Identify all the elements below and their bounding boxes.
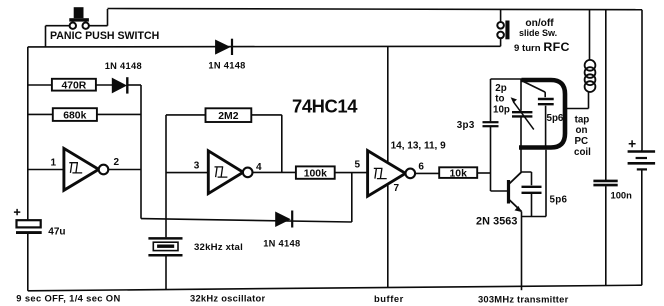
wire bottom ground rail	[28, 285, 642, 291]
wire gate1 input	[28, 169, 64, 171]
wire node B vertical	[140, 85, 142, 219]
svg-text:3: 3	[194, 161, 200, 172]
svg-text:on: on	[576, 125, 588, 136]
svg-text:1N 4148: 1N 4148	[105, 61, 142, 71]
svg-text:100n: 100n	[611, 190, 633, 201]
svg-text:1N 4148: 1N 4148	[208, 60, 245, 70]
svg-text:PANIC PUSH SWITCH: PANIC PUSH SWITCH	[50, 30, 159, 42]
svg-text:7: 7	[394, 183, 400, 194]
wire RFC bottom lead to tap	[565, 92, 589, 109]
wire slide switch bottom lead	[500, 38, 502, 46]
wire push switch right lead	[89, 9, 108, 26]
svg-text:32kHz oscillator: 32kHz oscillator	[190, 292, 265, 303]
svg-text:1N 4148: 1N 4148	[263, 238, 300, 248]
wire second rail	[28, 45, 501, 48]
svg-text:680k: 680k	[63, 111, 86, 122]
svg-text:6: 6	[418, 162, 424, 173]
capacitor C1 47u electrolytic	[14, 209, 42, 233]
svg-text:47u: 47u	[48, 227, 65, 238]
wire base node vertical lower	[490, 127, 492, 191]
wire base node vertical upper	[490, 79, 492, 121]
svg-text:9 sec OFF, 1/4 sec ON: 9 sec OFF, 1/4 sec ON	[16, 293, 120, 304]
label tap on PC coil	[574, 115, 591, 159]
svg-text:2: 2	[114, 157, 120, 168]
svg-text:74HC14: 74HC14	[292, 95, 358, 116]
wire gate1 output to node B	[108, 169, 141, 171]
wire unused-inputs line pins 14-13-11-9	[387, 46, 389, 287]
resistor R3 2M2	[206, 108, 252, 122]
resistor R2 680k	[53, 108, 97, 121]
push-button switch S1 contacts	[70, 23, 89, 29]
wire right edge down to battery	[641, 10, 643, 150]
svg-text:10k: 10k	[450, 168, 468, 179]
svg-text:1: 1	[51, 158, 57, 169]
svg-text:3p3: 3p3	[457, 120, 475, 131]
svg-text:5: 5	[355, 159, 361, 170]
wire top supply rail	[108, 9, 643, 10]
wire left rail	[27, 47, 29, 220]
variable capacitor VC1 arrow	[511, 97, 534, 129]
wire collector to 5p6 top	[521, 172, 532, 185]
svg-text:tap: tap	[575, 115, 590, 126]
wire 100n top lead	[605, 10, 607, 180]
resistor R5 10k	[439, 167, 477, 178]
wire 10k to base node	[477, 172, 490, 174]
wire 680k row left	[28, 113, 53, 115]
svg-text:303MHz transmitter: 303MHz transmitter	[478, 294, 569, 305]
wire 2M2 left leg	[166, 114, 206, 116]
crystal X1 32kHz	[148, 238, 182, 255]
wire 47u to bottom rail	[27, 234, 29, 291]
svg-text:14, 13, 11, 9: 14, 13, 11, 9	[391, 141, 446, 152]
svg-text:2p: 2p	[495, 83, 506, 94]
svg-text:2M2: 2M2	[218, 111, 238, 122]
wire diagonal tank top to inner 5p6	[523, 82, 545, 93]
wire diode D2 to node B	[127, 84, 141, 86]
capacitor C2 3p3	[483, 122, 499, 126]
svg-text:9 turn RFC: 9 turn RFC	[514, 40, 570, 54]
svg-text:32kHz xtal: 32kHz xtal	[194, 242, 243, 253]
svg-text:470R: 470R	[61, 81, 86, 92]
label on/off slide Sw.	[519, 18, 557, 38]
wire 5p6 bottom stub	[531, 194, 533, 217]
svg-text:slide Sw.: slide Sw.	[519, 28, 557, 38]
wire base lead	[491, 190, 508, 192]
wire RFC top lead	[589, 10, 591, 61]
slide switch S2 on/off	[497, 21, 509, 40]
svg-text:buffer: buffer	[374, 293, 404, 304]
wire lower signal line to diode D3 and pin5 riser	[141, 173, 352, 222]
wire 470R row left	[28, 84, 52, 86]
wire tank 5p6 inner top stub	[544, 92, 546, 97]
wire pin3 input	[166, 172, 208, 174]
wire 680k to node B	[97, 113, 141, 115]
diode D1 1N4148 series on rail	[215, 39, 232, 55]
svg-text:4: 4	[256, 162, 262, 173]
inverter gate U1c-f buffer	[368, 151, 416, 197]
svg-text:2N 3563: 2N 3563	[476, 216, 518, 228]
wire 100k to buffer input pin5	[335, 172, 368, 174]
wire slide switch top lead	[500, 9, 502, 22]
variable capacitor VC1 2p-10p plates	[512, 112, 532, 116]
wire gate2 output to 100k	[252, 171, 296, 173]
resistor R1 470R	[52, 79, 96, 91]
battery B1	[628, 140, 656, 169]
wire collector riser	[520, 148, 522, 172]
svg-text:to: to	[495, 94, 504, 105]
wire 3p3 top to tank coil	[491, 78, 524, 80]
wire 2M2 right leg	[251, 115, 281, 172]
wire pin3 node vertical to crystal	[165, 115, 167, 237]
transistor Q1 2N3563	[509, 172, 522, 212]
wire tank left edge upper	[520, 79, 522, 111]
wire tank left edge lower	[520, 118, 522, 148]
capacitor C4 5p6 emitter	[522, 187, 542, 193]
wire battery top lead	[641, 150, 643, 151]
svg-text:PC: PC	[575, 136, 589, 147]
wire buffer output to 10k	[415, 172, 439, 174]
svg-text:5p6: 5p6	[550, 194, 568, 205]
wire battery bottom lead	[641, 170, 643, 286]
svg-text:100k: 100k	[304, 168, 327, 179]
wire push switch left lead	[46, 26, 70, 47]
diode D2 1N4148 after 470R	[112, 77, 128, 93]
svg-text:5p6: 5p6	[547, 113, 564, 124]
inductor L2 9-turn RFC	[585, 60, 596, 92]
inverter gate U1b	[208, 151, 252, 194]
wire tank 5p6 inner bottom stub	[545, 106, 547, 148]
wire emitter tie to tank bottom	[522, 150, 547, 217]
push-button switch S1 plunger	[69, 7, 89, 21]
inverter gate U1a	[64, 148, 108, 190]
wire crystal to bottom rail	[165, 256, 167, 289]
capacitor C3 5p6 inside tank	[538, 99, 554, 104]
svg-text:coil: coil	[574, 147, 591, 158]
tank PC coil loop L1	[519, 80, 565, 148]
resistor R4 100k	[296, 166, 335, 178]
value label 2p to 10p	[493, 83, 510, 116]
diode D3 1N4148 lower line	[275, 211, 292, 228]
wire emitter to bottom rail	[521, 212, 523, 291]
wire 100n bottom lead	[605, 186, 607, 286]
svg-text:10p: 10p	[493, 105, 510, 116]
capacitor C5 100n	[593, 181, 617, 185]
wire 470R to diode D2	[96, 84, 112, 86]
